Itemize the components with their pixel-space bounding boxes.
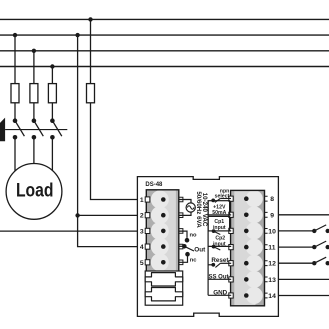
svg-text:Cp2: Cp2 [215, 235, 225, 241]
wire L1 bus [0, 18, 329, 20]
AC source symbol G1 [186, 203, 195, 212]
switch npn select [211, 199, 215, 203]
wire pin14 out [278, 295, 329, 297]
wire pole2 drop [33, 51, 35, 84]
module U1 DS-48 outline [137, 177, 278, 317]
breaker contact Q1 [13, 118, 25, 139]
fuse F4 [87, 84, 95, 103]
svg-text:12: 12 [268, 261, 276, 268]
wire pole2 to load [33, 137, 35, 163]
svg-text:10: 10 [268, 228, 276, 235]
wire nc stub [179, 254, 188, 262]
svg-text:no: no [190, 233, 198, 239]
node Out common [182, 244, 187, 249]
svg-text:50mA: 50mA [212, 210, 226, 216]
svg-text:2: 2 [140, 213, 144, 220]
node pin2 tee junction [75, 213, 79, 217]
fuse F3 [48, 84, 56, 103]
wire AC supply row2 [179, 212, 191, 215]
breaker handle [0, 118, 5, 142]
wire aux drop to pin2 [77, 35, 79, 215]
svg-text:Load: Load [16, 181, 54, 202]
wire pin9 out [278, 214, 329, 216]
jumper cartridge 1 [145, 273, 183, 286]
wire Out stub [179, 245, 184, 247]
svg-text:Out: Out [194, 247, 206, 254]
svg-text:4: 4 [140, 244, 144, 251]
relay arm K1 [184, 246, 194, 251]
node L3-pole2 junction [32, 49, 36, 53]
node L2-pole1 junction [13, 33, 17, 37]
wire GND row [208, 294, 231, 296]
terminal circles J1 [151, 191, 169, 209]
breaker contact Q3 [50, 118, 62, 139]
wire pin11 out [278, 246, 314, 248]
cell Cp1 input [208, 216, 230, 231]
breaker linkage [5, 129, 67, 131]
J2 wire-entry slots left [229, 196, 233, 298]
node nc contact [185, 252, 190, 257]
fuse F1 [11, 84, 19, 103]
wire N bus [0, 66, 329, 68]
connector J2 right terminal strip body [231, 190, 265, 306]
terminal circles J2 [246, 190, 263, 207]
switch S1 on pin10 [312, 229, 316, 233]
switch Cp1 npn [212, 229, 216, 233]
wire pin10 out [278, 230, 314, 232]
svg-text:8: 8 [270, 196, 274, 203]
ladder rail [207, 201, 209, 296]
fuse F2 [30, 84, 38, 103]
wire pin13 out [278, 278, 329, 280]
svg-text:nc: nc [190, 258, 198, 264]
wire SS Out row [208, 278, 231, 280]
wire pin2 branch [78, 214, 138, 216]
wire fused drop to pin1 [90, 19, 92, 84]
svg-text:13: 13 [268, 277, 276, 284]
wire L3 bus [0, 50, 329, 52]
wire pole1 to load [14, 137, 16, 171]
switch S2 on pin11 [312, 245, 316, 249]
J2 clamp marks right [265, 196, 268, 298]
wire pole1 drop [14, 35, 16, 84]
svg-text:9: 9 [270, 212, 274, 219]
wire L2 bus [0, 34, 329, 36]
jumper cartridge 2 [145, 288, 183, 301]
jumper holder outline below J1 [145, 271, 183, 305]
wire AC supply row1 [179, 200, 191, 204]
switch S3 on pin12 [312, 261, 316, 265]
cell +12V 50mA [208, 201, 230, 215]
breaker contact Q2 [32, 118, 44, 139]
cell Cp2 input [208, 245, 231, 247]
node no contact [185, 238, 190, 243]
J1 clamp marks right [179, 197, 183, 264]
load M1 [6, 164, 62, 220]
J1 wire-entry slots left [145, 197, 150, 265]
switch Cp2 npn [212, 245, 216, 249]
wire pole3 to load [51, 137, 53, 170]
svg-text:11: 11 [268, 245, 275, 252]
wire pole3 drop [51, 67, 53, 85]
wire aux to pin4 [78, 215, 138, 246]
connector J1 left terminal strip body [146, 190, 179, 273]
wire no stub [179, 231, 187, 238]
wire pin3 from left edge [0, 230, 137, 232]
terminal screw dots J1 pins 1-5 [161, 197, 166, 202]
node L2-aux junction [75, 33, 79, 37]
svg-text:14: 14 [268, 293, 276, 300]
svg-text:1: 1 [140, 197, 144, 204]
wire pin12 out [278, 262, 314, 264]
svg-text:3: 3 [140, 228, 144, 235]
node N-pole3 junction [50, 64, 54, 68]
svg-text:50/60Hz 6VA: 50/60Hz 6VA [195, 191, 202, 228]
switch Reset [208, 264, 213, 266]
svg-text:5: 5 [140, 260, 144, 267]
svg-text:DS-48: DS-48 [145, 182, 163, 188]
label rating rotated [195, 191, 208, 228]
node L1-F4 junction [88, 17, 92, 21]
svg-text:Cp1: Cp1 [214, 219, 224, 225]
terminal screw dots J2 pins 8-14 [244, 196, 249, 201]
